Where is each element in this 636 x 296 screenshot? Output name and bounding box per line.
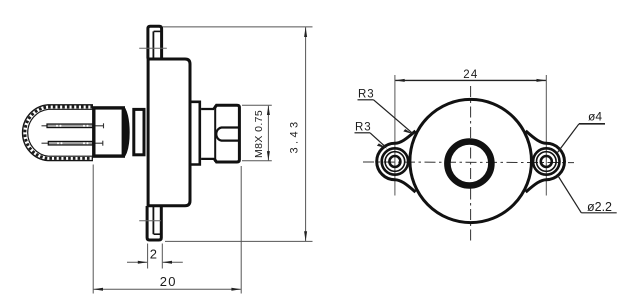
spacer ring [134, 109, 144, 154]
thread relief groove [201, 109, 214, 159]
main body circle [410, 99, 532, 222]
lamp socket body [94, 108, 124, 156]
dim 24 dimension line [395, 79, 546, 81]
svg-text:M8X 0.75: M8X 0.75 [253, 110, 265, 158]
dim 3.43 extension lines [163, 26, 313, 28]
left ear lobe [377, 131, 416, 192]
bulb glass envelope outer outline [23, 105, 93, 161]
tab top centre mark [139, 47, 167, 49]
svg-text:24: 24 [463, 69, 478, 81]
tab bottom centre mark [139, 220, 161, 222]
right ear centreline / extension [545, 75, 547, 196]
svg-text:20: 20 [160, 274, 177, 289]
dim M8x0.75 extension lines [242, 104, 272, 106]
label dia 4 [558, 110, 606, 153]
horizontal centreline [363, 161, 574, 164]
left ear centreline / extension [394, 75, 396, 196]
svg-text:ø2.2: ø2.2 [587, 200, 612, 214]
svg-text:R3: R3 [355, 122, 372, 134]
washer behind nut [192, 102, 200, 165]
label R3 upper [358, 89, 414, 135]
nut slot (thread end) [216, 128, 239, 141]
tab top hole lines [154, 30, 162, 32]
dim M8x0.75 dimension line [267, 106, 269, 161]
socket crimp bulge [123, 109, 129, 156]
hex nut body [214, 105, 240, 162]
right ear hole circles [533, 148, 559, 174]
tab bottom hole lines [154, 233, 162, 235]
dim 2 extension lines [147, 244, 149, 269]
label R3 lower [355, 122, 388, 149]
bulb glass envelope inner outline [28, 109, 93, 156]
bulb glass bead pattern band [25, 107, 93, 158]
svg-text:3.43: 3.43 [289, 118, 301, 153]
dim 2 arrows [127, 261, 147, 263]
flange plate [148, 59, 190, 206]
dim 20 extension lines [92, 165, 94, 294]
lead wire upper [42, 123, 104, 128]
nut face line [214, 106, 216, 162]
svg-text:2: 2 [150, 247, 157, 262]
vertical centreline [470, 86, 472, 244]
centre hole ring [447, 142, 491, 186]
left ear hole circles [382, 148, 408, 174]
right ear lobe [526, 131, 565, 192]
dim 20 dimension line [94, 288, 241, 290]
svg-text:R3: R3 [358, 89, 375, 101]
lead wire lower [42, 141, 103, 146]
svg-text:ø4: ø4 [588, 110, 602, 124]
flange tab bottom [147, 206, 161, 240]
flange tab top [148, 26, 162, 58]
label dia 2.2 [558, 176, 617, 215]
dim 3.43 dimension line [305, 27, 307, 241]
